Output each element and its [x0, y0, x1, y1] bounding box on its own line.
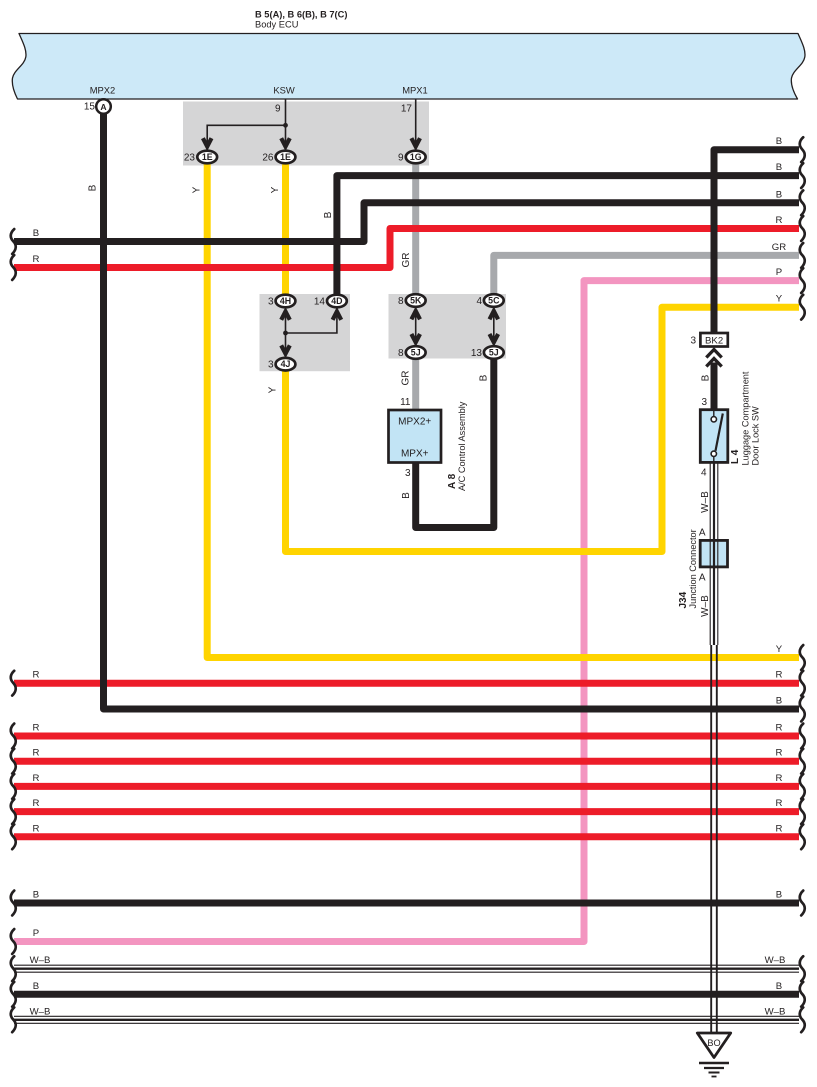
svg-text:4J: 4J	[281, 359, 291, 369]
break symbol left R	[11, 749, 16, 774]
svg-text:MPX2: MPX2	[90, 85, 116, 96]
svg-text:MPX2+: MPX2+	[398, 417, 431, 428]
svg-text:R: R	[33, 723, 40, 734]
wire MPX1 pin 17	[415, 99, 417, 150]
break symbol right Y	[800, 645, 805, 670]
svg-text:B: B	[88, 184, 99, 191]
svg-text:GR: GR	[772, 242, 786, 253]
wire W-B horizontal lower	[14, 1016, 799, 1023]
svg-text:W–B: W–B	[765, 955, 786, 966]
svg-text:R: R	[33, 773, 40, 784]
svg-text:B: B	[479, 374, 490, 381]
break symbol left W-B	[11, 1007, 16, 1032]
connector 5K	[406, 294, 426, 307]
break symbol left P	[11, 929, 16, 954]
break symbol right GR	[800, 243, 805, 268]
break symbol left R	[11, 824, 16, 849]
svg-text:W–B: W–B	[765, 1006, 786, 1017]
svg-text:A: A	[699, 528, 706, 539]
wire W-B horizontal upper	[14, 965, 799, 972]
svg-text:3: 3	[405, 468, 411, 479]
connector 4H	[276, 295, 296, 308]
svg-text:1E: 1E	[280, 152, 291, 162]
svg-text:Y: Y	[192, 186, 203, 193]
svg-text:W–B: W–B	[30, 955, 51, 966]
svg-text:3: 3	[268, 360, 274, 371]
break symbol left W-B	[11, 956, 16, 981]
break symbol right B	[800, 137, 805, 162]
break symbol left R	[11, 799, 16, 824]
svg-text:4: 4	[701, 468, 707, 479]
svg-text:5K: 5K	[410, 296, 422, 306]
wire B horizontal bottom2	[14, 991, 799, 998]
connector 1G pin9	[406, 151, 426, 164]
svg-text:R: R	[33, 823, 40, 834]
svg-text:R: R	[776, 670, 783, 681]
svg-text:3: 3	[268, 297, 274, 308]
svg-text:B: B	[323, 211, 334, 218]
svg-text:4H: 4H	[280, 296, 291, 306]
connector BK2 box	[700, 333, 727, 347]
ground point BO triangle	[697, 1033, 730, 1058]
wire between 5C and 5J pin13	[493, 307, 495, 346]
svg-text:4D: 4D	[331, 296, 342, 306]
arrow into 5J pin13	[490, 334, 499, 342]
break symbol left B	[11, 891, 16, 916]
break symbol right B	[800, 891, 805, 916]
arrow into 4H	[281, 312, 290, 320]
svg-text:W–B: W–B	[700, 595, 711, 617]
wire P pink: right break to junction connector column	[14, 281, 799, 942]
svg-text:14: 14	[314, 297, 326, 308]
wire W-B vertical from L4 through J34 to ground	[710, 463, 718, 1034]
wire R horizontal row4	[14, 783, 799, 790]
wire R left to right upper pair	[14, 229, 799, 268]
svg-text:B 5(A), B 6(B), B 7(C): B 5(A), B 6(B), B 7(C)	[255, 9, 347, 19]
break symbol left R	[11, 724, 16, 749]
wire B top right with vertical to BK2	[714, 150, 799, 334]
svg-text:5J: 5J	[489, 348, 499, 358]
svg-text:MPX1: MPX1	[402, 85, 428, 96]
svg-text:Body ECU: Body ECU	[255, 20, 298, 30]
MPX2 pin A circle	[96, 99, 111, 114]
ground symbol	[699, 1063, 729, 1077]
svg-text:B: B	[33, 981, 39, 992]
svg-text:R: R	[776, 215, 783, 226]
switch L4 Luggage Compartment Door Lock SW	[700, 410, 728, 463]
svg-text:P: P	[776, 267, 782, 278]
svg-text:BO: BO	[707, 1038, 720, 1048]
break symbol right B	[800, 697, 805, 722]
break symbol right Y	[800, 295, 805, 320]
connector 5J pin13	[484, 346, 504, 359]
wire R horizontal row1	[14, 680, 799, 687]
wire R horizontal row6	[14, 833, 799, 840]
arrow into 4D	[333, 312, 342, 320]
break symbol right R	[800, 749, 805, 774]
break symbol right B	[800, 982, 805, 1007]
arrow into 1G pin9	[411, 138, 420, 146]
connector 1E pin26	[276, 151, 296, 164]
wire Y from 1E pin26 down to 4H	[282, 163, 289, 295]
arrow into 5J pin8	[411, 334, 420, 342]
break symbol right R	[800, 216, 805, 241]
wire GR from 5C up and right to break	[494, 255, 799, 294]
wire GR from 5J to A/C pin 11	[412, 359, 419, 411]
svg-text:9: 9	[398, 153, 404, 164]
arrow into 5K	[411, 311, 420, 319]
connector 4J	[276, 358, 296, 371]
wire B horizontal bottom1	[14, 900, 799, 907]
connector 5C	[484, 294, 504, 307]
svg-text:A/C Control Assembly: A/C Control Assembly	[457, 401, 467, 491]
break symbol left R	[11, 671, 16, 696]
wire B left pair to upper right break	[14, 203, 799, 242]
svg-text:Junction Connector: Junction Connector	[688, 529, 698, 608]
svg-text:11: 11	[400, 397, 411, 408]
svg-text:3: 3	[690, 336, 696, 347]
break symbol right W-B	[800, 1007, 805, 1032]
junction dot KSW branch	[283, 123, 288, 128]
svg-text:Luggage Compartment: Luggage Compartment	[741, 371, 751, 465]
A/C Control Assembly A8 block	[389, 410, 442, 463]
svg-text:1G: 1G	[410, 152, 422, 162]
svg-text:5J: 5J	[411, 348, 421, 358]
arrow into 1E pin23	[203, 138, 212, 146]
break symbol left B	[11, 982, 16, 1007]
svg-text:B: B	[401, 492, 412, 499]
svg-text:KSW: KSW	[273, 85, 295, 96]
break symbol right R	[800, 671, 805, 696]
connector 1E pin23	[197, 151, 217, 164]
svg-text:MPX+: MPX+	[401, 449, 429, 460]
svg-text:R: R	[776, 748, 783, 759]
svg-text:R: R	[33, 254, 40, 265]
wire GR from 1G to 5K	[412, 163, 419, 295]
svg-text:26: 26	[262, 153, 274, 164]
connector shading box 1E/1G area	[183, 102, 429, 166]
svg-text:B: B	[776, 189, 782, 200]
svg-text:8: 8	[398, 296, 404, 307]
svg-text:B: B	[776, 890, 782, 901]
connector shading box 5K/5C/5J area	[389, 294, 507, 359]
break symbol right R	[800, 824, 805, 849]
svg-text:Y: Y	[776, 644, 783, 655]
svg-text:5C: 5C	[488, 296, 500, 306]
wire B from MPX2 pin A down and right to break	[104, 114, 800, 710]
wire between 5K and 5J	[415, 307, 417, 346]
break symbol left R	[11, 774, 16, 799]
svg-text:B: B	[776, 136, 782, 147]
svg-text:B: B	[701, 374, 712, 381]
wire Y from 4J down, right, up, right to break	[286, 307, 800, 551]
svg-text:B: B	[776, 981, 782, 992]
svg-text:Door Lock SW: Door Lock SW	[751, 406, 761, 466]
svg-text:R: R	[33, 748, 40, 759]
svg-text:Y: Y	[268, 386, 279, 393]
svg-text:B: B	[776, 162, 782, 173]
wire B BK2 to L4 pin3	[711, 363, 718, 411]
svg-text:B: B	[33, 228, 39, 239]
svg-text:R: R	[776, 823, 783, 834]
connector chevrons below BK2	[706, 350, 721, 358]
break symbol right P	[800, 268, 805, 293]
svg-text:17: 17	[401, 104, 413, 115]
svg-text:R: R	[776, 798, 783, 809]
svg-text:15: 15	[84, 102, 96, 113]
wire B to 4D and right break	[337, 176, 799, 308]
svg-text:B: B	[776, 696, 782, 707]
svg-text:Y: Y	[270, 186, 281, 193]
break symbol right R	[800, 799, 805, 824]
svg-text:A: A	[100, 102, 106, 112]
Body ECU block B5(A) B6(B) B7(C)	[12, 34, 805, 100]
svg-text:R: R	[776, 773, 783, 784]
arrow into 5C	[490, 311, 499, 319]
arrow into 4J	[281, 345, 290, 353]
svg-text:A: A	[699, 573, 706, 584]
wire R horizontal row2	[14, 733, 799, 740]
svg-text:P: P	[33, 928, 39, 939]
svg-text:GR: GR	[401, 371, 412, 386]
svg-text:3: 3	[701, 397, 707, 408]
svg-text:9: 9	[275, 104, 281, 115]
junction connector J34 box	[700, 540, 727, 567]
svg-text:W–B: W–B	[700, 491, 711, 513]
wire R horizontal row5	[14, 808, 799, 815]
svg-text:Y: Y	[776, 294, 783, 305]
connector shading box 4H/4D/4J area	[260, 294, 351, 371]
svg-text:R: R	[33, 670, 40, 681]
svg-text:B: B	[33, 890, 39, 901]
break symbol right B	[800, 190, 805, 215]
break symbol left B	[11, 229, 16, 254]
svg-text:W–B: W–B	[30, 1006, 51, 1017]
wire R horizontal row3	[14, 758, 799, 765]
wire B A/C pin3 loop to 5J pin13	[416, 359, 494, 528]
svg-text:L 4: L 4	[730, 449, 741, 464]
break symbol right R	[800, 724, 805, 749]
svg-text:1E: 1E	[202, 152, 213, 162]
svg-text:4: 4	[476, 296, 482, 307]
break symbol right R	[800, 774, 805, 799]
arrow into 1E pin26	[281, 138, 290, 146]
break symbol right B	[800, 163, 805, 188]
svg-text:R: R	[776, 723, 783, 734]
svg-text:BK2: BK2	[705, 335, 723, 346]
break symbol right W-B	[800, 956, 805, 981]
svg-text:13: 13	[471, 348, 483, 359]
wire between 4H and 4J with branch to 4D	[286, 308, 337, 358]
svg-text:GR: GR	[401, 253, 412, 268]
wire W-B through J34	[710, 540, 718, 567]
svg-text:23: 23	[184, 153, 196, 164]
svg-text:8: 8	[398, 348, 404, 359]
wire KSW pin 9 branch	[207, 99, 285, 150]
break symbol left R	[11, 255, 16, 280]
connector 4D	[327, 295, 347, 308]
junction dot 4H/4J branch	[283, 331, 288, 336]
wire Y from 1E pin23 down and right to break	[207, 163, 799, 658]
connector 5J pin8	[406, 346, 426, 359]
svg-text:R: R	[33, 798, 40, 809]
